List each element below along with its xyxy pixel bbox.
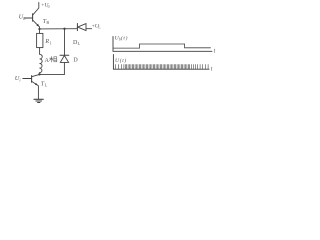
label +UL (92, 23, 102, 29)
label +Ua supply (41, 3, 49, 9)
diode D triangle (60, 56, 68, 63)
svg-text:i: i (19, 77, 21, 82)
wire node A to resistor R1 (39, 29, 41, 33)
svg-text:A: A (45, 57, 50, 64)
label A-phase hanzi xiang (49, 56, 57, 62)
wire node A to diode DL (40, 28, 78, 30)
svg-text:L: L (98, 25, 101, 30)
svg-text:B: B (46, 20, 49, 25)
waveform Ub(t) axes (113, 37, 212, 52)
transistor TB emitter lead (33, 20, 40, 29)
transistor TB base lead wire (24, 17, 32, 19)
label A-phase text A (45, 57, 50, 64)
node A junction dot (38, 28, 40, 30)
junction dot above diode D (63, 28, 65, 30)
svg-text:): ) (125, 35, 128, 42)
label TL (41, 81, 48, 87)
node B junction dot (38, 73, 40, 75)
transistor TB emitter arrow (36, 24, 39, 27)
label R1 (44, 39, 51, 45)
svg-text:D: D (73, 58, 78, 64)
wire resistor R1 to coil (39, 48, 41, 55)
svg-text:1: 1 (50, 40, 52, 45)
waveform Ub(t) pulse trace (113, 44, 210, 48)
label Ub input (19, 14, 27, 21)
resistor R1 body (37, 33, 43, 47)
svg-text:t: t (214, 49, 216, 55)
label Ui input (15, 75, 22, 82)
transistor TL base bar (31, 76, 33, 83)
transistor TL emitter arrow (35, 83, 38, 86)
ground bar 3 (38, 102, 40, 104)
wire diode D to node B (40, 62, 65, 74)
transistor TL collector lead (32, 74, 40, 76)
label D (73, 58, 78, 64)
svg-text:L: L (78, 41, 81, 46)
waveform U(t) axes (113, 55, 209, 70)
ground bar 2 (36, 100, 42, 102)
svg-text:a: a (48, 4, 50, 9)
label t top axis (214, 49, 216, 55)
label TB (43, 19, 50, 25)
inductor coil A-phase winding (39, 54, 42, 72)
label U(t) waveform title (115, 57, 126, 64)
svg-text:t: t (211, 67, 213, 73)
wire diode DL to +UL (86, 28, 92, 30)
transistor TB base bar (32, 14, 34, 21)
diode DL cathode bar (76, 24, 78, 31)
transistor TB collector lead (33, 3, 39, 16)
diode DL triangle (78, 24, 86, 31)
svg-text:): ) (123, 57, 126, 64)
transistor TL base lead wire (23, 78, 32, 80)
ground bar 1 (34, 98, 43, 100)
label t bottom axis (211, 67, 213, 73)
transistor TL emitter lead (32, 81, 39, 99)
wire junction to diode D (64, 29, 66, 55)
svg-text:L: L (45, 83, 48, 88)
label DL (73, 40, 81, 46)
diode D cathode bar (60, 54, 69, 56)
svg-text:b: b (23, 16, 26, 21)
waveform U(t) pulse train ticks (116, 64, 208, 69)
label Ub(t) waveform title (115, 35, 128, 42)
